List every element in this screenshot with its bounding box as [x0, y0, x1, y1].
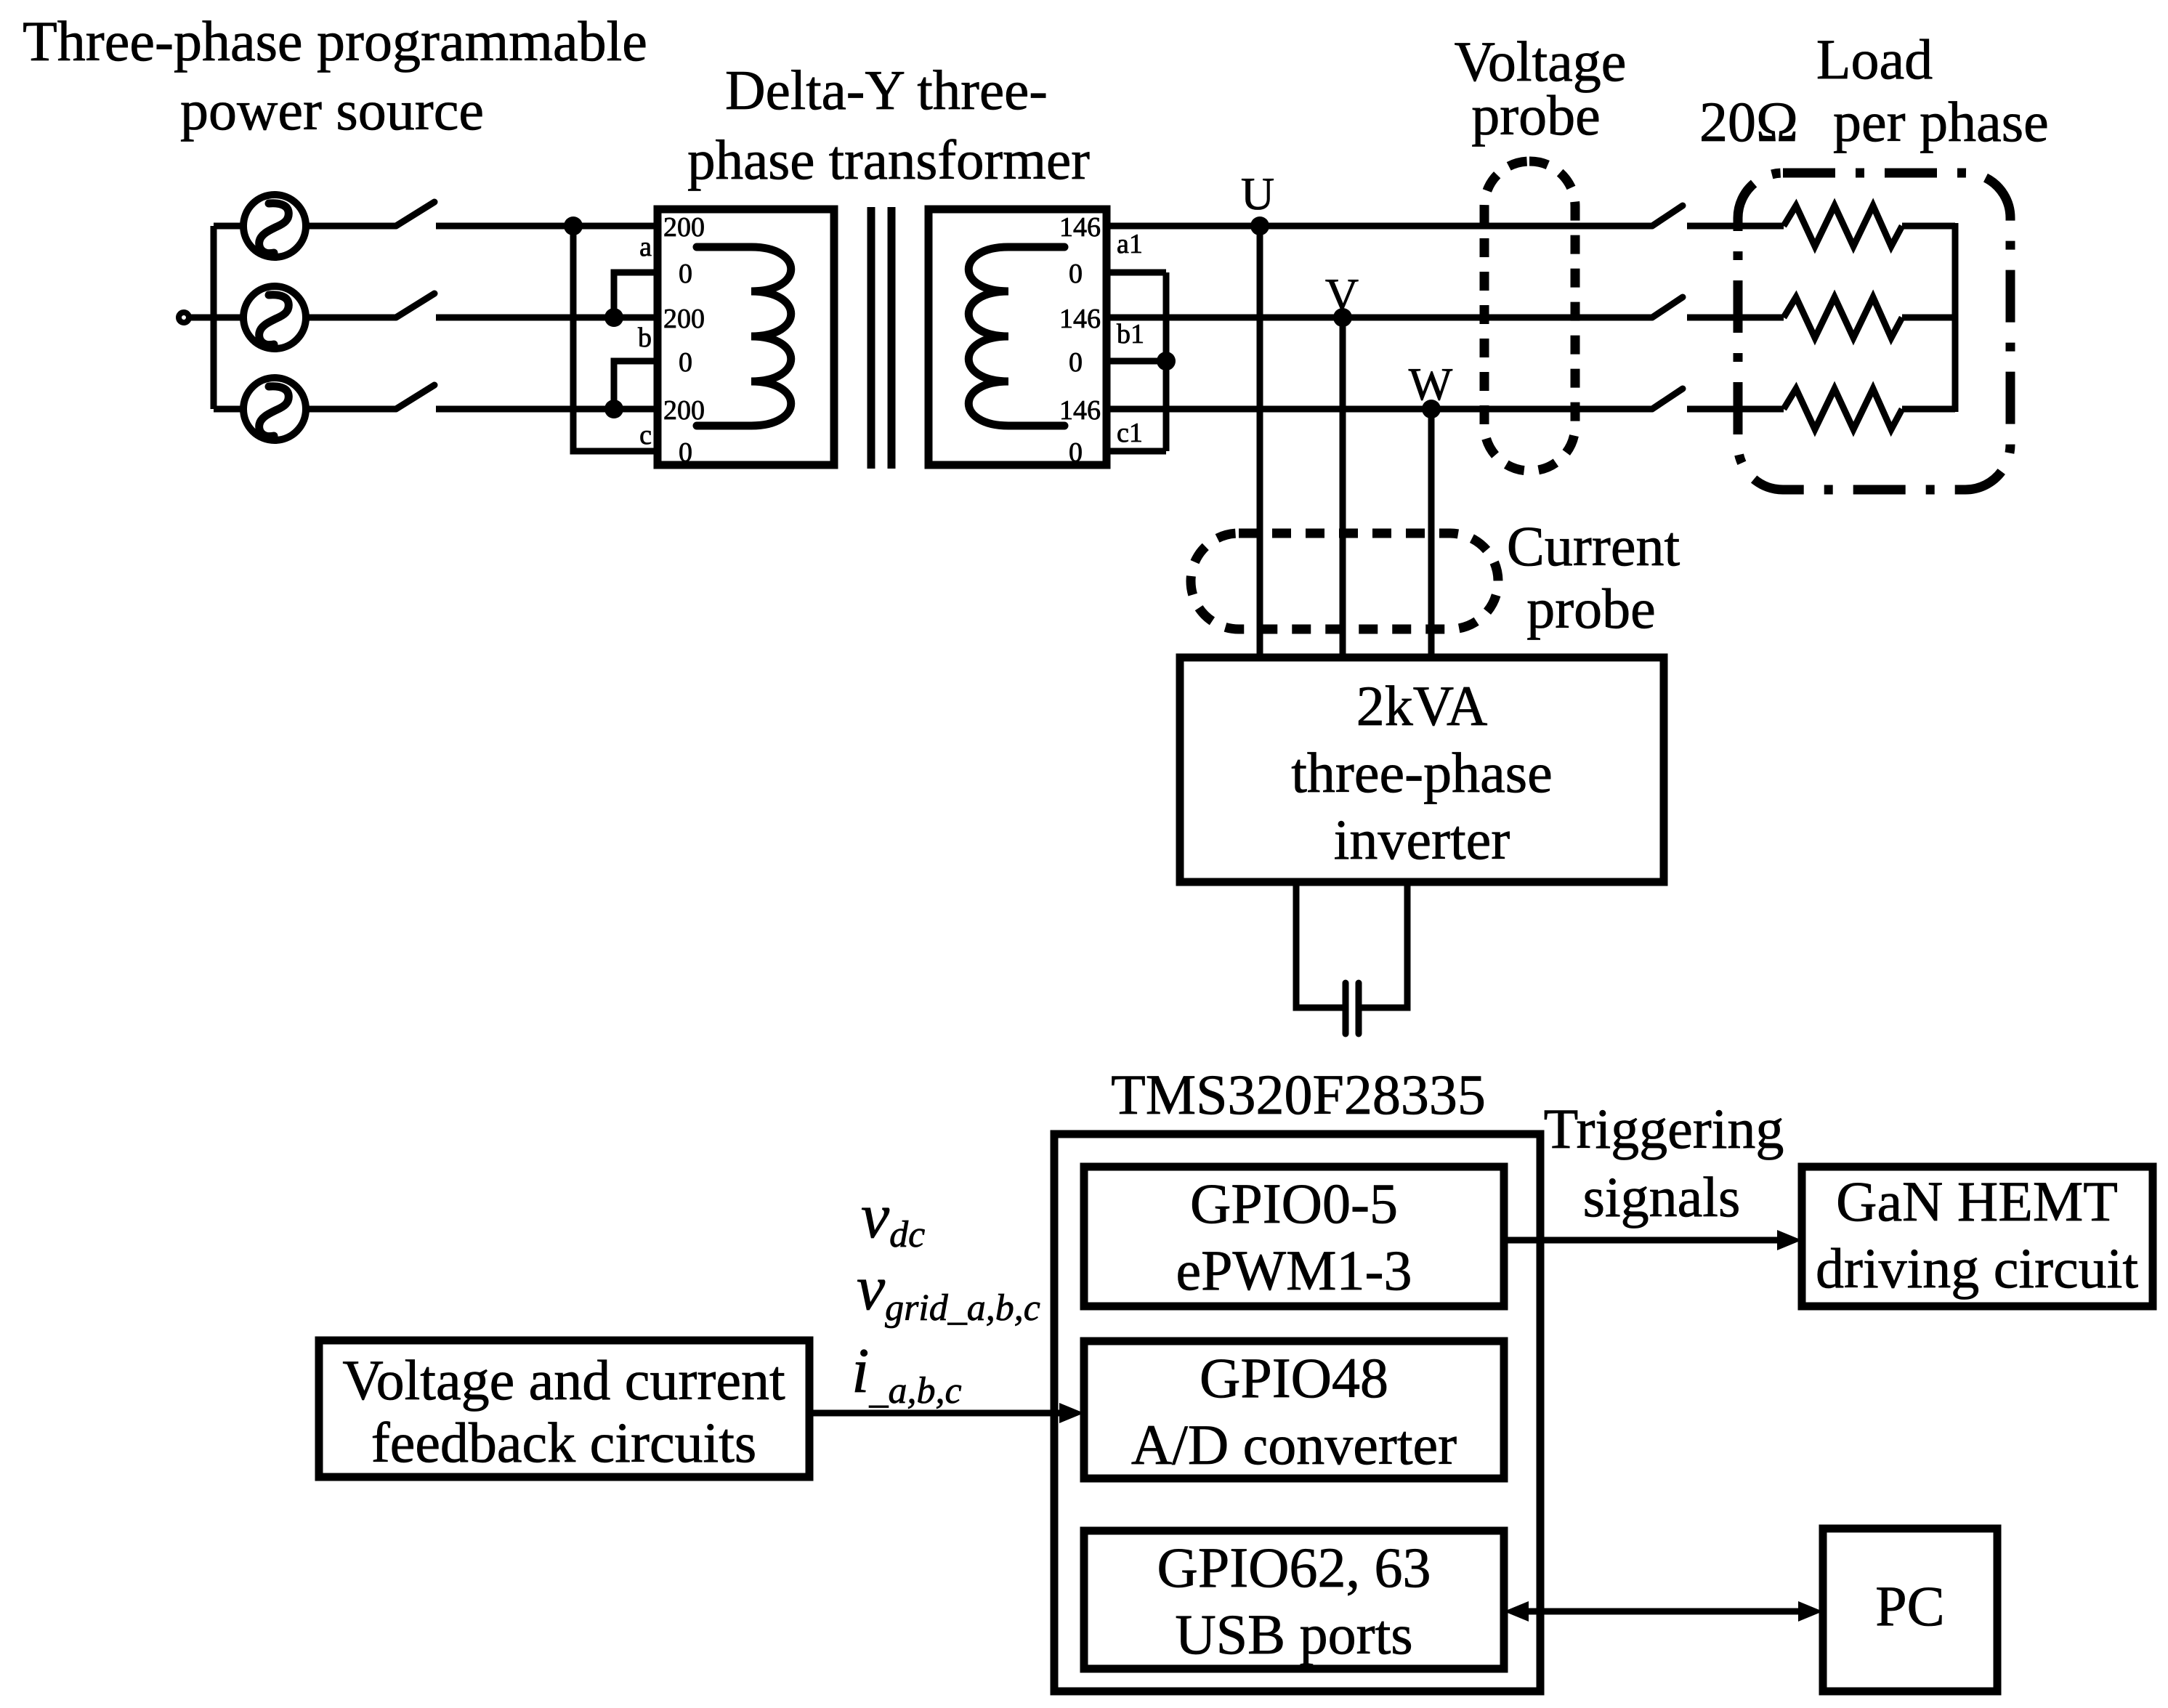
svg-text:0: 0 [1069, 259, 1083, 289]
transformer T1 secondary box [929, 209, 1107, 465]
wire rail U [1107, 223, 1652, 230]
svg-text:PC: PC [1875, 1574, 1944, 1638]
wire delta link b-a0 [614, 272, 658, 317]
wire switch2 to transformer [436, 315, 658, 321]
title: three-phase programmable power source [23, 9, 647, 142]
node: neutral junction [1157, 352, 1176, 371]
load switch V blade [1652, 297, 1683, 317]
arrowhead USB right [1798, 1601, 1823, 1622]
wire switch1 to transformer [436, 223, 658, 230]
wire trigger arrow [1504, 1237, 1779, 1244]
switch S1 blade [396, 202, 434, 226]
node: delta junction a [564, 216, 583, 235]
label Triggering signals [1544, 1097, 1784, 1229]
svg-text:GaN HEMT: GaN HEMT [1836, 1170, 2118, 1233]
svg-text:signals: signals [1583, 1165, 1741, 1229]
wire bus to source 2 [214, 315, 244, 321]
svg-text:GPIO62, 63: GPIO62, 63 [1157, 1536, 1431, 1599]
wire to load resistor W [1687, 406, 1784, 413]
svg-text:probe: probe [1526, 577, 1656, 640]
node: delta junction b [604, 308, 623, 327]
wire secondary b1-0 stub [1107, 358, 1166, 365]
svg-text:146: 146 [1059, 212, 1101, 243]
GaN HEMT driving circuit box [1802, 1167, 2153, 1306]
svg-text:USB ports: USB ports [1175, 1603, 1412, 1666]
AC source V1 [243, 195, 306, 257]
svg-text:three-phase: three-phase [1291, 741, 1552, 804]
wire W drop [1428, 409, 1435, 657]
current probe (dashed capsule) [1191, 533, 1498, 629]
AC source V3 [243, 378, 306, 440]
label Current probe [1507, 514, 1680, 640]
svg-text:U: U [1241, 168, 1274, 219]
svg-text:200: 200 [663, 304, 705, 334]
wire to load resistor V [1687, 315, 1784, 321]
svg-text:Current: Current [1507, 514, 1680, 578]
title: Delta-Y three-phase transformer [687, 59, 1090, 191]
capacitor C1 [1346, 983, 1359, 1034]
AC source V2 [243, 286, 306, 349]
PC box [1823, 1529, 1997, 1691]
wire R3 to bus [1902, 406, 1955, 413]
wire: left source bus [211, 226, 217, 409]
switch S2 blade [396, 294, 434, 317]
node: input terminal [179, 312, 189, 323]
svg-text:Delta-Y three-: Delta-Y three- [725, 59, 1048, 121]
svg-text:V: V [1325, 269, 1359, 320]
wire terminal to bus [190, 315, 214, 321]
resistor R1 [1784, 206, 1902, 246]
load boundary (dash-dot box) [1738, 173, 2010, 490]
transformer T1 secondary winding [968, 247, 1064, 426]
transformer T1 primary winding [697, 247, 791, 426]
arrowhead feedback [1059, 1403, 1084, 1423]
node: delta junction c [604, 400, 623, 418]
svg-text:b: b [638, 323, 652, 353]
wire: neutral bus [1163, 272, 1170, 451]
transformer T1 primary box [658, 209, 834, 465]
wire delta link c-b0 [614, 361, 658, 409]
svg-text:2kVA: 2kVA [1356, 674, 1488, 737]
label: Load 20ohm per phase [1699, 28, 2049, 153]
svg-text:146: 146 [1059, 304, 1101, 334]
svg-text:0: 0 [679, 437, 692, 468]
svg-text:power source: power source [180, 78, 484, 142]
wire dc link left [1296, 882, 1343, 1008]
wire switch3 to transformer [436, 406, 658, 413]
svg-text:A/D converter: A/D converter [1131, 1413, 1457, 1476]
svg-text:Load: Load [1816, 28, 1933, 91]
svg-text:c: c [639, 420, 652, 450]
wire source3 to switch [306, 406, 396, 413]
resistor R2 [1784, 297, 1902, 338]
wire bus to source 3 [214, 406, 244, 413]
label: Voltage probe [1455, 30, 1627, 147]
DSP outer box [1054, 1134, 1540, 1691]
svg-text:0: 0 [1069, 437, 1083, 468]
svg-text:0: 0 [679, 347, 692, 378]
svg-text:b1: b1 [1117, 319, 1144, 349]
arrowhead trigger [1777, 1230, 1802, 1250]
svg-text:GPIO0-5: GPIO0-5 [1190, 1172, 1398, 1235]
svg-text:0: 0 [1069, 347, 1083, 378]
GPIO0-5 ePWM1-3 box [1084, 1167, 1504, 1306]
wire: load star bus [1952, 223, 1959, 412]
svg-text:feedback circuits: feedback circuits [371, 1411, 757, 1474]
svg-text:W: W [1409, 358, 1453, 410]
resistor R3 [1784, 389, 1902, 429]
wire source2 to switch [306, 315, 396, 321]
switch S3 blade [396, 385, 434, 409]
wire R1 to bus [1902, 223, 1955, 230]
wire source1 to switch [306, 223, 396, 230]
inverter box [1180, 657, 1664, 882]
svg-text:c1: c1 [1117, 418, 1143, 448]
svg-text:inverter: inverter [1334, 808, 1510, 871]
wire rail V [1107, 315, 1652, 321]
svg-text:TMS320F28335: TMS320F28335 [1111, 1063, 1486, 1126]
svg-text:driving circuit: driving circuit [1816, 1237, 2138, 1300]
wire V drop [1340, 317, 1346, 657]
wire R2 to bus [1902, 315, 1955, 321]
node V [1333, 308, 1352, 327]
GPIO48 A/D converter box [1084, 1341, 1504, 1478]
wire dc link right [1362, 882, 1407, 1008]
svg-text:Triggering: Triggering [1544, 1097, 1784, 1160]
transformer core [871, 207, 891, 469]
svg-text:200: 200 [663, 395, 705, 426]
label 2kVA three-phase inverter [1291, 674, 1552, 871]
wire secondary c1-0 stub [1107, 448, 1166, 455]
svg-text:0: 0 [679, 259, 692, 289]
svg-text:phase transformer: phase transformer [687, 129, 1090, 191]
load switch W blade [1652, 389, 1683, 409]
svg-text:20Ω: 20Ω [1699, 90, 1798, 153]
svg-text:GPIO48: GPIO48 [1200, 1346, 1388, 1409]
svg-text:per phase: per phase [1833, 90, 2049, 153]
wire feedback arrow [809, 1410, 1061, 1417]
svg-text:a1: a1 [1117, 229, 1143, 259]
GPIO62,63 USB ports box [1084, 1531, 1504, 1669]
wire to load resistor U [1687, 223, 1784, 230]
node U [1250, 216, 1269, 235]
load switch U blade [1652, 206, 1683, 226]
svg-text:200: 200 [663, 212, 705, 243]
wire USB link [1526, 1608, 1801, 1615]
wire secondary a1-0 stub [1107, 270, 1166, 276]
arrowhead USB left [1504, 1601, 1529, 1622]
svg-text:probe: probe [1471, 84, 1601, 147]
svg-text:a: a [639, 232, 652, 262]
svg-text:146: 146 [1059, 395, 1101, 426]
wire bus to source 1 [214, 223, 244, 230]
voltage probe (dashed capsule) [1484, 161, 1575, 471]
wire U drop [1257, 226, 1263, 657]
wire delta link a-c0 [573, 226, 658, 451]
feedback circuits box [319, 1340, 809, 1477]
svg-text:Voltage and current: Voltage and current [342, 1348, 785, 1412]
wire rail W [1107, 406, 1652, 413]
node W [1422, 400, 1441, 418]
svg-text:Three-phase programmable: Three-phase programmable [23, 9, 647, 73]
svg-text:ePWM1-3: ePWM1-3 [1176, 1239, 1412, 1302]
